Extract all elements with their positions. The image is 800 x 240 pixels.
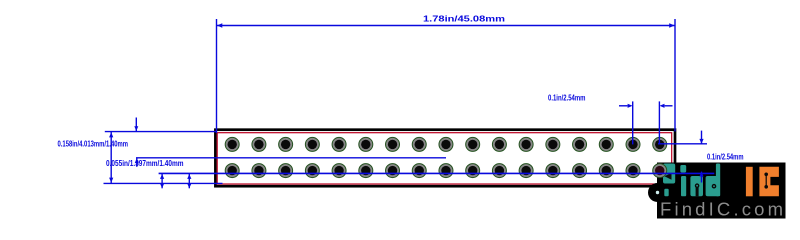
- svg-text:0.055in/1.397mm/1.40mm: 0.055in/1.397mm/1.40mm: [106, 159, 184, 168]
- svg-text:0.158in/4.013mm/1.40mm: 0.158in/4.013mm/1.40mm: [58, 139, 129, 148]
- svg-text:0.1in/2.54mm: 0.1in/2.54mm: [707, 153, 744, 162]
- svg-text:0.1in/2.54mm: 0.1in/2.54mm: [548, 94, 586, 103]
- svg-text:1.78in/45.08mm: 1.78in/45.08mm: [423, 14, 505, 23]
